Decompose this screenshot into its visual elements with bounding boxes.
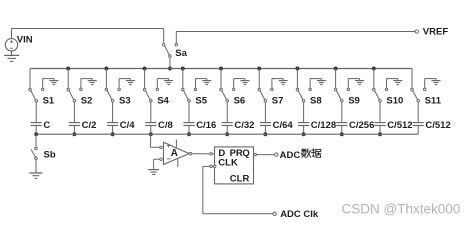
label Sa [175,48,187,59]
ground (below VIN) [4,51,19,61]
capacitor C/4 (cell 3) [107,123,118,126]
junction top-plate rail / C [34,132,38,136]
label VIN [17,35,33,46]
wire S7 pole to capacitor C/64 [264,102,266,123]
value label C/128 [311,120,336,131]
label S2 [81,96,93,107]
svg-text:S10: S10 [386,96,403,107]
label S11 [425,96,442,107]
svg-text:S7: S7 [272,96,284,107]
junction top-plate rail / C/8 [149,132,153,136]
capacitor C/32 (cell 6) [222,123,233,126]
wire bus to S4 left contact [144,69,146,89]
capacitor C/16 (cell 5) [183,123,194,126]
wire capacitor C/512 to top-plate rail [417,126,419,135]
svg-text:S8: S8 [310,96,322,107]
label ADC (data out) [280,150,301,161]
wire capacitor C/512 to top-plate rail [379,126,381,135]
label S1 [43,96,55,107]
switch S5 [182,88,197,102]
ground (S5 contact) [202,81,211,85]
svg-text:ADC: ADC [280,150,301,161]
switch S9 [334,88,349,102]
label S5 [195,96,207,107]
wire bus to S2 left contact [67,69,69,89]
wire comparator - input to ground [154,159,160,169]
svg-text:C/512: C/512 [425,120,450,131]
switch Sb (open) [31,147,37,159]
wire VIN top lead [11,29,13,39]
wire Q output [254,153,275,156]
switch S3 [105,88,120,102]
svg-text:C/512: C/512 [387,120,412,131]
svg-text:CSDN @Thxtek000: CSDN @Thxtek000 [342,202,461,217]
svg-text:CLR: CLR [230,173,250,184]
value label C/512 [387,120,412,131]
svg-text:S4: S4 [157,96,169,107]
wire capacitor C to top-plate rail [35,126,37,135]
value label C/16 [196,120,216,131]
value label C/64 [273,120,294,131]
label A (comparator) [171,148,178,159]
svg-text:CLK: CLK [218,157,238,168]
wire S8 pole to capacitor C/128 [303,102,305,123]
ground (S9 contact) [355,81,364,85]
wire VIN bus to Sa left contact [12,29,164,44]
junction bus / S2 [66,67,70,71]
junction top-plate rail / C/4 [111,132,115,136]
wire clock to CLK pin [203,165,210,167]
junction top-plate rail / C/64 [263,132,267,136]
label S7 [272,96,284,107]
wire common bus rail (switch side) [30,68,412,70]
wire bus to S5 left contact [182,69,184,89]
svg-text:S2: S2 [81,96,93,107]
capacitor C/256 (cell 9) [336,123,347,126]
svg-text:C/256: C/256 [349,120,374,131]
wire S9 pole to capacitor C/256 [341,102,343,123]
wire S4 pole to capacitor C/8 [150,102,152,123]
node comparator output [189,152,192,155]
junction top-plate rail / C/512 [378,132,382,136]
label S9 [348,96,360,107]
wire S5 pole to capacitor C/16 [188,102,190,123]
wire capacitor C/2 to top-plate rail [73,126,75,135]
wire capacitor C/128 to top-plate rail [303,126,305,135]
value label C/2 [82,120,97,131]
svg-text:A: A [171,148,178,159]
capacitor C (cell 1) [31,123,42,126]
wire comparator output to D input [192,153,210,155]
capacitor C/128 (cell 8) [298,123,309,126]
label 据 (data, char 2) [311,149,321,158]
node CLK wire [210,165,216,168]
svg-text:S1: S1 [43,96,55,107]
wire S2 pole to capacitor C/2 [73,102,75,123]
label S10 [386,96,403,107]
switch S6 [220,88,235,102]
node D input [210,153,215,156]
wire S10 pole to capacitor C/512 [379,102,381,123]
svg-text:C/64: C/64 [273,120,294,131]
svg-text:Q: Q [242,148,249,159]
wire S1 pole to capacitor C [35,102,37,123]
svg-text:Sb: Sb [44,150,56,161]
wire S2 right contact to ground [81,79,92,89]
wire bus to S9 left contact [335,69,337,89]
terminal VREF [415,30,418,33]
svg-text:ADC Clk: ADC Clk [280,209,319,220]
wire top-plate rail to Sb [35,134,37,147]
label S4 [157,96,169,107]
svg-text:C/8: C/8 [158,120,173,131]
wire bus to S11 left contact [411,69,413,89]
value label C/4 [120,120,136,131]
switch S4 [143,88,158,102]
ground (S3 contact) [126,81,135,85]
wire top-plate rail to comparator + input [151,134,160,147]
junction bus / S4 [143,67,147,71]
voltage source VIN [5,39,17,51]
switch S2 [67,88,82,102]
wire bus to S3 left contact [105,69,107,89]
wire VREF bus to Sa right contact [176,32,415,44]
watermark CSDN @Thxtek000 [342,202,461,217]
wire S8 right contact to ground [310,79,321,89]
wire S3 pole to capacitor C/4 [112,102,114,123]
wire capacitor C/8 to top-plate rail [150,126,152,135]
wire S9 right contact to ground [348,79,359,89]
svg-text:S6: S6 [234,96,246,107]
ground (S4 contact) [164,81,173,85]
junction bus / S10 [372,67,376,71]
wire S10 right contact to ground [387,79,398,89]
svg-text:VIN: VIN [17,35,33,46]
ground (S7 contact) [279,81,288,85]
wire S4 right contact to ground [157,79,168,89]
switch Sa [162,43,177,57]
junction bus / S9 [334,67,338,71]
svg-text:C/4: C/4 [120,120,136,131]
value label C/512 [425,120,450,131]
label S6 [234,96,246,107]
wire bus to S7 left contact [258,69,260,89]
junction bus / S7 [257,67,261,71]
flip-flop U1 (D latch) [215,147,254,184]
junction bus / S3 [104,67,108,71]
ground (S6 contact) [241,81,250,85]
svg-text:VREF: VREF [423,26,449,37]
wire clock feed (down and right) [203,166,273,213]
wire bus to S10 left contact [373,69,375,89]
capacitor C/8 (cell 4) [145,123,156,126]
wire S11 right contact to ground [425,79,436,89]
pin label CLK [218,157,238,168]
switch S1 [29,88,44,102]
svg-text:S9: S9 [348,96,360,107]
ground (S1 contact) [50,81,59,85]
ground (below Sb) [29,173,42,178]
terminal ADC Clk [273,212,276,215]
wire S6 pole to capacitor C/32 [226,102,228,123]
wire bus to S6 left contact [220,69,222,89]
junction Sa on bus [168,67,172,71]
capacitor C/512 (cell 11) [413,123,424,126]
label Sb [44,150,56,161]
wire S3 right contact to ground [119,79,130,89]
wire S1 right contact to ground [43,79,54,89]
ground (S10 contact) [393,81,402,85]
ground (S8 contact) [317,81,326,85]
label 数 (data, char 1) [301,149,311,158]
svg-text:Sa: Sa [175,48,187,59]
pin label Q [242,148,249,159]
capacitor C/64 (cell 7) [260,123,271,126]
junction bus / S5 [181,67,185,71]
switch S7 [258,88,273,102]
capacitor C/2 (cell 2) [69,123,80,126]
wire Sa pole to top-plate bus [169,57,171,68]
wire capacitor C/256 to top-plate rail [341,126,343,135]
wire bus to S1 left contact [29,69,31,89]
ground (S2 contact) [88,81,97,85]
wire capacitor C/4 to top-plate rail [112,126,114,135]
wire S6 right contact to ground [234,79,245,89]
label S3 [119,96,131,107]
svg-text:C: C [43,120,50,131]
value label C/256 [349,120,374,131]
capacitor C/512 (cell 10) [374,123,385,126]
wire bus to S8 left contact [296,69,298,89]
junction bus / S6 [219,67,223,71]
ground (S11 contact) [432,81,441,85]
ground (comparator - input) [148,170,159,175]
wire S7 right contact to ground [272,79,283,89]
op-amp comparator A [160,140,189,167]
wire top-plate rail [36,133,418,135]
svg-text:C/32: C/32 [234,120,254,131]
svg-text:S3: S3 [119,96,131,107]
switch S10 [373,88,388,102]
junction top-plate rail / C/16 [187,132,191,136]
svg-text:C/2: C/2 [82,120,97,131]
svg-text:S5: S5 [195,96,207,107]
junction top-plate rail / C/256 [340,132,344,136]
junction top-plate rail / C/128 [302,132,306,136]
value label C [43,120,50,131]
svg-text:S11: S11 [425,96,442,107]
junction top-plate rail / C/2 [72,132,76,136]
junction bus / S8 [295,67,299,71]
wire Sb to ground [35,160,37,173]
wire capacitor C/64 to top-plate rail [264,126,266,135]
junction top-plate rail / C/32 [225,132,229,136]
svg-text:C/16: C/16 [196,120,216,131]
pin label D [218,148,225,159]
terminal ADC data [275,153,278,156]
switch S11 [411,88,426,102]
wire S5 right contact to ground [196,79,207,89]
switch S8 [296,88,311,102]
wire capacitor C/16 to top-plate rail [188,126,190,135]
value label C/8 [158,120,173,131]
pin label PR [230,148,243,159]
label S8 [310,96,322,107]
label VREF [423,26,449,37]
value label C/32 [234,120,254,131]
label ADC Clk [280,209,319,220]
wire S11 pole to capacitor C/512 [417,102,419,123]
pin label CLR [230,173,250,184]
svg-text:C/128: C/128 [311,120,336,131]
wire capacitor C/32 to top-plate rail [226,126,228,135]
